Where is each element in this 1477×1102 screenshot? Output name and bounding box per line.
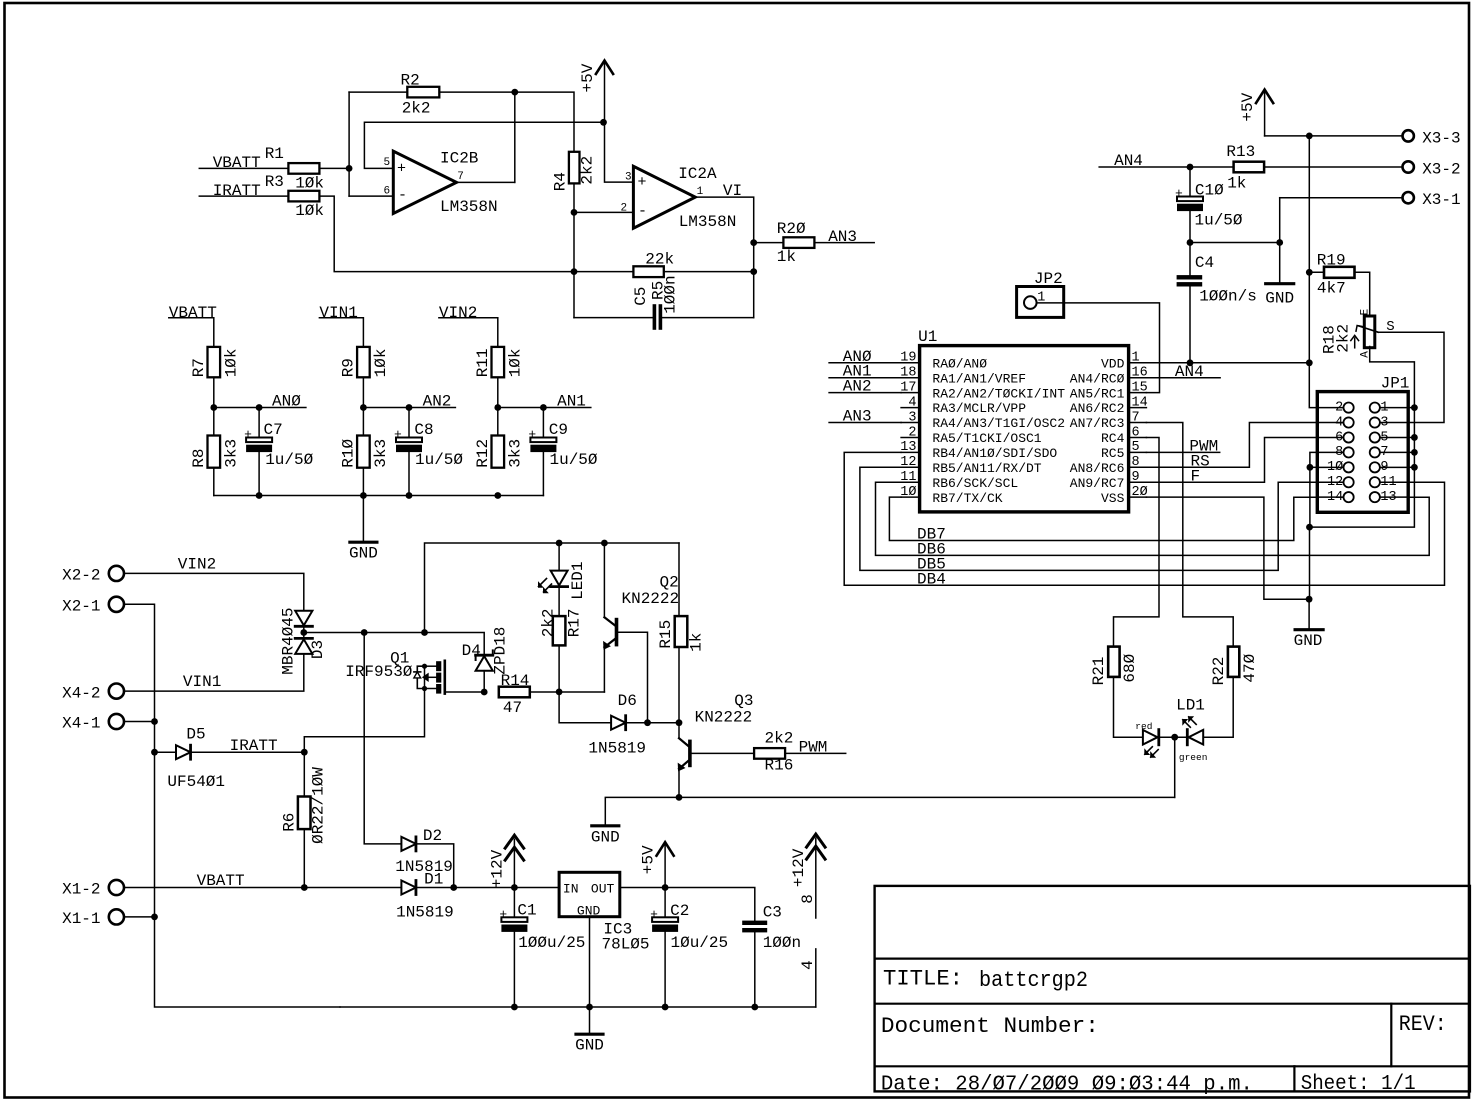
svg-text:X3-1: X3-1 (1422, 191, 1460, 209)
U1 left pin 18 RA1/AN1/VREF (900, 366, 1026, 387)
wire R4 bottom to pin2 node (573, 183, 575, 317)
svg-text:R22: R22 (1210, 657, 1228, 686)
svg-text:RA1/AN1/VREF: RA1/AN1/VREF (932, 371, 1026, 386)
svg-text:R12: R12 (474, 439, 492, 468)
capacitor C9 1u/50 (528, 421, 598, 469)
wire gate line down to D6 (559, 692, 611, 723)
svg-text:R11: R11 (474, 348, 492, 377)
svg-text:VBATT: VBATT (197, 872, 245, 890)
wire down to D2 (364, 633, 401, 844)
junction rail R12 (494, 492, 501, 499)
svg-text:9: 9 (1132, 470, 1140, 485)
svg-text:11: 11 (900, 470, 916, 485)
wire IC3 GND pin to ground (589, 917, 591, 1034)
svg-text:1ØØn/s: 1ØØn/s (1199, 288, 1257, 306)
wire C10 node to X3-1/ground (1190, 242, 1280, 244)
svg-text:2: 2 (1335, 400, 1343, 415)
junction R17 bottom (556, 689, 563, 696)
svg-text:E: E (1360, 308, 1372, 315)
zener diode D4 ZPD18 (462, 627, 510, 675)
junction JP1 pin7 / rail (1411, 449, 1418, 456)
schottky diode D2 1N5819 (395, 827, 453, 876)
svg-text:VSS: VSS (1101, 491, 1125, 506)
svg-text:R3: R3 (265, 173, 284, 191)
svg-text:+: + (244, 427, 252, 442)
diode body D2 (401, 837, 416, 851)
connector X2-2 (62, 566, 124, 585)
svg-text:3: 3 (1380, 415, 1388, 430)
svg-text:ANØ: ANØ (272, 392, 301, 410)
junction R15 bottom / Q3 collector (676, 719, 683, 726)
svg-text:GND: GND (591, 828, 620, 846)
svg-text:R15: R15 (657, 620, 675, 649)
junction AN1 node (494, 404, 501, 411)
LED LED1 (538, 543, 587, 616)
wire +5V down to IC2A pin3 (605, 122, 634, 182)
resistor R15 1k (657, 616, 705, 652)
junction rail LED1 (556, 540, 563, 547)
svg-text:2k2: 2k2 (402, 100, 431, 118)
wire C5 right (662, 317, 754, 319)
svg-text:C4: C4 (1195, 254, 1214, 272)
junction C3 / ground rail (751, 1004, 758, 1011)
svg-text:PWM: PWM (799, 738, 828, 756)
U1 right pin 6 RC4 (1101, 425, 1146, 446)
wire output vertical (514, 92, 516, 182)
+5V vertical to VDD and JP1 pin2 (1309, 136, 1317, 408)
wire R1 to node A (319, 167, 349, 169)
junction D4/gate (481, 689, 488, 696)
resistor R10 3k3 (340, 436, 391, 468)
svg-text:18: 18 (900, 366, 916, 381)
svg-text:VIN2: VIN2 (178, 555, 216, 573)
wire R5 left (574, 271, 633, 273)
svg-text:LM358N: LM358N (679, 213, 737, 231)
svg-text:+: + (397, 160, 406, 177)
svg-text:battcrgp2: battcrgp2 (979, 968, 1088, 993)
wire R21 bottom to red LED (1114, 677, 1143, 737)
resistor R9 10k (340, 347, 391, 377)
svg-text:+5V: +5V (640, 845, 658, 874)
svg-text:R13: R13 (1226, 143, 1255, 161)
wire Q1 drain to R6/IRATT (304, 689, 424, 753)
svg-text:RB5/AN11/RX/DT: RB5/AN11/RX/DT (932, 461, 1041, 476)
net VIN1 wire from X4-2 to D3 (124, 654, 304, 691)
wire R19 to R18 top (1355, 272, 1370, 316)
connector JP1 body (1317, 374, 1409, 512)
svg-text:Document Number:: Document Number: (881, 1014, 1099, 1039)
capacitor C1 100u/25 electrolytic (499, 888, 585, 1008)
junction Q3 emitter / LD1 return (676, 794, 683, 801)
junction VDD / +5V vertical (1306, 359, 1313, 366)
junction ground bus / D5 (151, 749, 158, 756)
svg-text:13: 13 (1380, 490, 1396, 505)
svg-text:R16: R16 (765, 757, 794, 775)
net AN3 wire to U1 pin 3 (829, 422, 901, 424)
svg-text:R6: R6 (280, 813, 298, 832)
resistor R5 22k feedback (633, 250, 674, 300)
svg-text:AN3: AN3 (828, 228, 857, 246)
svg-text:RAØ/ANØ: RAØ/ANØ (932, 356, 987, 371)
capacitor C7 1u/50 (244, 421, 314, 469)
svg-text:1ØØn: 1ØØn (763, 934, 801, 952)
JP1 pin 1 (1370, 400, 1408, 415)
diode D5 UF5401 (155, 725, 226, 791)
svg-text:+: + (528, 427, 536, 442)
U1 left pin 11 RB6/SCK/SCL (900, 470, 1018, 491)
ground (divider section) (349, 496, 378, 563)
capacitor C4 100n/s (1177, 254, 1257, 306)
wire R13 to X3-2 (1264, 166, 1403, 168)
wire JP1 pin10 stub (1310, 466, 1317, 468)
svg-text:R14: R14 (501, 672, 530, 690)
wire JP1 pin8 / pin10 to ground (1310, 452, 1317, 527)
svg-text:+5V: +5V (1239, 92, 1257, 121)
svg-text:14: 14 (1327, 490, 1343, 505)
JP1 pin 14 (1317, 490, 1353, 505)
svg-text:KN2222: KN2222 (695, 709, 753, 727)
svg-text:AN1: AN1 (557, 392, 586, 410)
title block TITLE row (883, 967, 1088, 994)
svg-text:4: 4 (799, 960, 817, 970)
svg-text:47: 47 (503, 699, 522, 717)
svg-text:IRATT: IRATT (230, 737, 278, 755)
junction C8 top (406, 404, 413, 411)
wire C7 top (258, 408, 260, 438)
wire R8 bottom to rail (213, 468, 215, 496)
svg-text:X4-1: X4-1 (62, 715, 100, 733)
svg-text:12: 12 (900, 455, 916, 470)
wire D3 cathodes to Q1 source node (303, 626, 305, 638)
svg-text:C9: C9 (549, 421, 568, 439)
wire R2 left feedback (349, 91, 407, 93)
wire U1 pin 12 to DB5 run (860, 467, 1317, 570)
wire C4 bottom to VDD (1189, 287, 1191, 363)
svg-text:X3-2: X3-2 (1422, 160, 1460, 178)
svg-text:1k: 1k (1227, 175, 1246, 193)
svg-text:R19: R19 (1317, 252, 1346, 270)
title block frame (875, 886, 1470, 1092)
connector X2-1 (62, 597, 124, 616)
connector X3-3 (1403, 129, 1461, 147)
junction pin10 / ground vertical (1307, 464, 1314, 471)
svg-text:C2: C2 (670, 902, 689, 920)
svg-text:LM358N: LM358N (440, 198, 498, 216)
wire node A vertical to R2 and pin 6 (348, 92, 350, 196)
svg-text:4: 4 (908, 395, 916, 410)
junction C1 / ground rail (511, 1004, 518, 1011)
svg-text:R2Ø: R2Ø (777, 220, 806, 238)
svg-text:RA4/AN3/T1GI/OSC2: RA4/AN3/T1GI/OSC2 (932, 416, 1065, 431)
svg-text:C7: C7 (264, 421, 283, 439)
junction ground corner (1306, 524, 1313, 531)
wire R6 bottom to VBATT line (303, 829, 305, 887)
svg-text:ZPD18: ZPD18 (491, 627, 509, 675)
wire U1 pin9 F to JP1 pin6 (1146, 438, 1317, 483)
net AN1 wire to U1 pin 18 (829, 377, 901, 379)
junction C10 / ground branch (1187, 239, 1194, 246)
svg-text:17: 17 (900, 380, 916, 395)
svg-text:1Ø: 1Ø (900, 485, 916, 500)
resistor R19 4k7 (1317, 252, 1355, 298)
resistor R8 3k3 (190, 436, 241, 468)
svg-text:2k2: 2k2 (765, 730, 794, 748)
junction C7 top (256, 404, 263, 411)
svg-text:Sheet: 1/1: Sheet: 1/1 (1301, 1073, 1416, 1096)
svg-text:U1: U1 (918, 328, 937, 346)
wire X1-2 VBATT line (124, 887, 401, 889)
svg-text:R17: R17 (566, 608, 584, 637)
+12V supply (488, 835, 523, 888)
transistor Q1 IRF9530 P-MOSFET (345, 649, 445, 693)
resistor R21 680 (1090, 647, 1139, 686)
diode body D5 (176, 745, 191, 759)
svg-text:C1Ø: C1Ø (1195, 182, 1224, 200)
svg-text:LED1: LED1 (569, 561, 587, 599)
junction JP1 pin5 / rail (1411, 434, 1418, 441)
ground (X3-1) (1265, 243, 1294, 308)
svg-text:AN2: AN2 (423, 392, 452, 410)
wire C9 bottom (542, 452, 544, 495)
JP1 pin 2 (1317, 400, 1353, 415)
svg-text:8: 8 (1132, 455, 1140, 470)
svg-text:+: + (1175, 186, 1183, 201)
svg-text:14: 14 (1132, 395, 1148, 410)
U1 left pin 4 RA3/MCLR/VPP (901, 395, 1026, 416)
svg-text:5: 5 (1380, 430, 1388, 445)
transistor Q2 KN2222 NPN (603, 574, 679, 650)
wire U1 pin 10 to DB7 run (889, 497, 1317, 540)
svg-text:MBR4Ø45: MBR4Ø45 (280, 607, 298, 674)
resistor R12 3k3 (474, 436, 525, 468)
transistor Q3 KN2222 NPN (678, 692, 754, 771)
wire R15 bottom (678, 647, 680, 723)
JP1 pin 12 (1317, 475, 1353, 490)
+5V supply (579, 61, 613, 123)
wire ground vertical to GND symbol (1309, 527, 1311, 599)
LED LD1 green half (1179, 716, 1208, 763)
svg-text:3: 3 (625, 172, 632, 184)
svg-text:red: red (1135, 721, 1152, 732)
svg-text:X4-2: X4-2 (62, 684, 100, 702)
svg-text:1: 1 (697, 186, 704, 198)
svg-text:OUT: OUT (591, 882, 615, 897)
svg-text:KN2222: KN2222 (622, 590, 680, 608)
wire Q3 emitter to ground line (678, 769, 680, 798)
svg-text:AN4/RCØ: AN4/RCØ (1070, 371, 1125, 386)
svg-text:R7: R7 (190, 358, 208, 377)
svg-text:3k3: 3k3 (223, 439, 241, 468)
wire C7 bottom (258, 452, 260, 495)
wire D1 to regulator input (417, 887, 559, 889)
wire LD1 return line (605, 797, 1174, 825)
svg-text:X3-3: X3-3 (1422, 129, 1460, 147)
junction R5 left (571, 268, 578, 275)
net VIN1 stub to R9 (319, 318, 363, 347)
svg-text:4: 4 (1335, 415, 1343, 430)
svg-text:8: 8 (799, 894, 817, 904)
junction C1 / +12V arrow (511, 884, 518, 891)
wire U1 pin16 AN4 stub (1146, 377, 1220, 379)
U1 right pin 1 VDD (1101, 351, 1146, 372)
junction LD1 common cathode (1171, 734, 1178, 741)
svg-text:X2-1: X2-1 (62, 598, 100, 616)
capacitor C10 plates (1175, 182, 1243, 230)
junction +5V / pin5 rail (600, 119, 607, 126)
U1 right pin 20 VSS (1101, 485, 1148, 506)
wire R14 to R17/Q2 emitter (530, 691, 605, 693)
junction VSS / ground stem (1306, 596, 1313, 603)
svg-text:1u/5Ø: 1u/5Ø (265, 451, 313, 469)
junction JP1 pin1 / rail (1411, 404, 1418, 411)
svg-text:R4: R4 (551, 172, 569, 191)
svg-text:Q3: Q3 (734, 692, 753, 710)
junction output/R5 right (750, 268, 757, 275)
diode body D1 (401, 881, 416, 895)
wire R19 left (1309, 271, 1324, 273)
resistor R6 0R22/10W shunt (280, 752, 327, 844)
svg-text:D6: D6 (618, 692, 637, 710)
wire Q2 collector to rail (603, 543, 605, 617)
capacitor C1 plates (499, 902, 585, 953)
title block Document Number row (881, 1012, 1447, 1039)
schottky diode D1 1N5819 (396, 871, 454, 922)
U1 right pin 7 AN7/RC3 (1070, 410, 1147, 431)
junction C9 top (540, 404, 547, 411)
junction X4-1/bus (151, 718, 158, 725)
svg-text:1: 1 (1132, 351, 1140, 366)
wire U1 pin1 VDD to +5V vertical (1146, 362, 1309, 364)
svg-text:2k2: 2k2 (578, 156, 596, 185)
wire AN0 net (214, 407, 306, 409)
wire X4-1 to ground bus (124, 721, 155, 723)
voltage regulator IC3 78L05 (559, 872, 649, 953)
junction X3-1 / ground stem (1276, 239, 1283, 246)
resistor R4 2k2 (551, 152, 596, 191)
wire D2 to +12V node (417, 844, 454, 888)
U1 right pin 15 AN5/RC1 (1070, 380, 1148, 401)
junction rail Q2 collector (601, 540, 608, 547)
svg-text:D3: D3 (309, 640, 327, 659)
wire R10 bottom (362, 468, 364, 496)
wire D4 bottom to gate line (483, 671, 485, 692)
svg-text:JP2: JP2 (1034, 270, 1063, 288)
U1 right pin 16 AN4/RC0 (1070, 366, 1148, 387)
JP1 pin 6 (1317, 430, 1353, 445)
title block Date row (881, 1073, 1416, 1097)
svg-text:13: 13 (900, 440, 916, 455)
svg-text:VIN2: VIN2 (439, 304, 477, 322)
wire U1 pin6 to R21 (1114, 437, 1160, 646)
junction rail C7 (256, 492, 263, 499)
svg-text:AN4: AN4 (1175, 363, 1204, 381)
trimmer R18 2k2 (1321, 308, 1395, 357)
wire X1-1 to ground bus (124, 916, 155, 918)
svg-text:5: 5 (1132, 440, 1140, 455)
svg-text:UF54Ø1: UF54Ø1 (167, 773, 225, 791)
svg-text:AN3: AN3 (843, 408, 872, 426)
svg-text:7: 7 (1132, 410, 1140, 425)
junction Q2 base / D6 (644, 719, 651, 726)
svg-text:Date: 28/Ø7/2ØØ9 Ø9:Ø3:44 p.m.: Date: 28/Ø7/2ØØ9 Ø9:Ø3:44 p.m. (881, 1073, 1253, 1096)
wire rail corner down to R15 (678, 543, 680, 616)
svg-text:VBATT: VBATT (169, 304, 217, 322)
svg-text:1ØØu/25: 1ØØu/25 (518, 934, 585, 952)
IC U1 PIC microcontroller body (918, 328, 1129, 512)
svg-text:-: - (638, 203, 647, 220)
svg-text:C1: C1 (517, 902, 536, 920)
svg-text:DB7: DB7 (917, 526, 946, 544)
svg-text:AN5/RC1: AN5/RC1 (1070, 386, 1125, 401)
svg-text:1ØØn: 1ØØn (661, 275, 679, 313)
U1 left pin 19 RA0/AN0 (900, 351, 987, 372)
svg-text:RA2/AN2/TØCKI/INT: RA2/AN2/TØCKI/INT (932, 386, 1065, 401)
svg-text:+: + (638, 174, 647, 191)
svg-text:VIN1: VIN1 (319, 304, 357, 322)
svg-text:1N5819: 1N5819 (588, 739, 646, 757)
wire Q3 collector (678, 723, 680, 739)
junction R6 / VBATT (301, 884, 308, 891)
resistor R22 470 (1210, 647, 1259, 686)
svg-text:R9: R9 (340, 358, 358, 377)
junction VDD / C4 (1187, 359, 1194, 366)
connector X4-1 (62, 714, 124, 733)
+12V supply (790, 834, 825, 918)
svg-text:F: F (1191, 468, 1201, 486)
svg-text:1Øk: 1Øk (295, 202, 324, 220)
capacitor C3 100n (742, 903, 801, 952)
U1 left pin 17 RA2/AN2/T0CKI/INT (900, 380, 1065, 401)
svg-text:D2: D2 (423, 827, 442, 845)
wire Q2 base to D6 node (617, 632, 647, 723)
wire Q2 emitter to gate line (603, 647, 605, 692)
capacitor C5 100n (632, 275, 680, 329)
wire U1 pin 13 to DB4 run (844, 452, 1444, 585)
svg-text:RB4/AN1Ø/SDI/SDO: RB4/AN1Ø/SDI/SDO (932, 446, 1057, 461)
U1 right pin 5 RC5 (1101, 440, 1146, 461)
svg-text:X1-2: X1-2 (62, 881, 100, 899)
svg-text:GND: GND (577, 904, 601, 919)
svg-text:+12V: +12V (488, 849, 506, 888)
junction R19 branch (1306, 269, 1313, 276)
svg-text:6: 6 (384, 186, 391, 198)
svg-text:+: + (650, 907, 658, 922)
svg-text:19: 19 (900, 351, 916, 366)
svg-text:RA3/MCLR/VPP: RA3/MCLR/VPP (932, 401, 1026, 416)
resistor R2 2k2 feedback (401, 72, 440, 118)
net VBATT input wire (top-left) (199, 167, 288, 169)
ground (logic) (1294, 599, 1324, 650)
svg-text:green: green (1179, 752, 1208, 763)
junction C2 / ground rail (662, 1004, 669, 1011)
JP1 pin 7 (1370, 445, 1408, 460)
net AN4 wire top (1099, 166, 1233, 168)
svg-text:AN4: AN4 (1114, 152, 1143, 170)
wire X2-1 to ground bus (124, 604, 340, 1007)
wire C5 left (574, 317, 653, 319)
wire X3-1 down (1279, 198, 1281, 243)
svg-text:1k: 1k (687, 633, 705, 652)
svg-text:RA5/T1CKI/OSC1: RA5/T1CKI/OSC1 (932, 431, 1041, 446)
U1 left pin 12 RB5/AN11/RX/DT (900, 455, 1042, 476)
U1 right pin 9 AN9/RC7 (1070, 470, 1147, 491)
svg-text:-: - (398, 187, 407, 204)
svg-text:3k3: 3k3 (372, 439, 390, 468)
wire R18 wiper S to JP1 pin3 (1378, 332, 1444, 422)
resistor R17 2k2 (539, 608, 583, 645)
JP1 pin 11 (1370, 475, 1408, 490)
wire U1 pin 11 to DB6 run (876, 482, 1430, 555)
